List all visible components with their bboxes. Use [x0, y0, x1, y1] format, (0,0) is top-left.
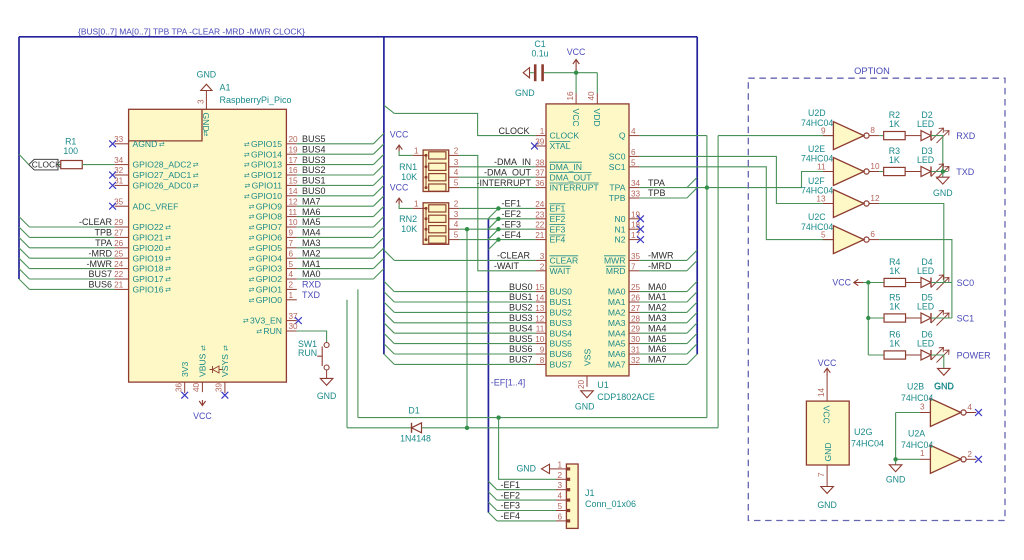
svg-text:29: 29	[631, 325, 641, 334]
bus entry BUS5 U1	[384, 333, 394, 343]
LED D2	[921, 131, 931, 141]
svg-text:⇄: ⇄	[244, 183, 250, 190]
svg-text:30: 30	[289, 322, 299, 331]
U2G pin 7 GND	[826, 465, 828, 487]
svg-text:GND: GND	[933, 188, 953, 198]
wire R3-D3	[905, 171, 921, 173]
bus entry J1 -EF4	[488, 512, 497, 521]
no-connect U1 XTAL	[531, 143, 538, 150]
wire RN2 pin5 -EF4	[459, 239, 535, 241]
wire MA7	[639, 363, 687, 365]
LED D4	[921, 278, 931, 288]
svg-text:MA0: MA0	[608, 287, 626, 297]
bus entry MA6	[373, 206, 384, 216]
svg-text:3: 3	[454, 158, 459, 167]
svg-text:GPIO22: GPIO22	[133, 222, 164, 232]
svg-text:3: 3	[540, 252, 545, 261]
power symbol VCC at U2G	[826, 368, 828, 376]
wire RN2 pin3 -EF2	[459, 218, 535, 220]
wire RN1 pin4 -DMA_OUT	[459, 176, 535, 178]
U1 pin 24 EF1	[536, 207, 546, 209]
svg-text:BUS0: BUS0	[509, 282, 533, 292]
svg-text:4: 4	[454, 220, 459, 229]
bus entry BUS2	[373, 165, 384, 175]
RN2 pin 1	[413, 207, 426, 209]
svg-text:EF2: EF2	[550, 214, 566, 224]
svg-text:39: 39	[215, 382, 224, 392]
svg-text:MA6: MA6	[648, 344, 667, 354]
svg-text:GND: GND	[197, 70, 217, 80]
U1 pin 15 BUS0	[536, 291, 546, 293]
svg-text:1K: 1K	[889, 266, 900, 276]
A1 pin 37 3V3_EN	[286, 320, 296, 322]
wire RN2 pin4 -EF3	[459, 228, 535, 230]
svg-text:-EF4: -EF4	[502, 230, 522, 240]
svg-text:4: 4	[454, 168, 459, 177]
RN2 pin 4	[449, 228, 459, 230]
wire U2E out	[879, 171, 883, 173]
ground flag at J1 pin 1	[549, 468, 556, 470]
U1 pin 39 XTAL	[536, 145, 546, 147]
wire RN2 pin2 -EF1	[459, 207, 535, 209]
wire BUS4 from A1 to bus	[297, 153, 374, 155]
svg-text:32: 32	[631, 356, 641, 365]
svg-text:U2B: U2B	[907, 381, 924, 391]
svg-text:GPIO15: GPIO15	[251, 139, 282, 149]
ground symbol above A1	[201, 84, 212, 90]
svg-text:20: 20	[577, 379, 586, 389]
svg-text:30: 30	[631, 335, 641, 344]
svg-text:GND: GND	[201, 113, 211, 132]
svg-text:9: 9	[540, 346, 545, 355]
wire TPA to A1	[29, 247, 114, 249]
U1 pin 12 BUS3	[536, 322, 546, 324]
wire MA7 from A1 to bus	[297, 205, 374, 207]
wire TXD from A1	[346, 300, 348, 428]
svg-text:29: 29	[114, 218, 124, 227]
svg-text:U1: U1	[597, 380, 609, 390]
svg-text:AGND: AGND	[133, 139, 158, 149]
svg-text:EF4: EF4	[550, 235, 566, 245]
svg-text:-MWR: -MWR	[648, 251, 674, 261]
resistor R6 1K	[884, 351, 906, 359]
ground symbol at D3	[942, 172, 944, 178]
wire J1 -EF2	[497, 499, 556, 501]
A1 pin 34 GPIO28_ADC2	[115, 164, 129, 166]
svg-text:⇄: ⇄	[201, 345, 208, 351]
svg-text:TPB: TPB	[648, 188, 666, 198]
svg-text:8: 8	[870, 126, 875, 135]
wire MA2 from A1 to bus	[297, 257, 374, 259]
LED D6	[921, 350, 931, 360]
ground symbol below U1	[581, 391, 594, 398]
svg-text:CDP1802ACE: CDP1802ACE	[597, 392, 655, 402]
svg-text:⇄: ⇄	[165, 256, 171, 263]
wire Q from U1	[639, 135, 707, 137]
bus entry -MRD	[687, 260, 697, 270]
wire U2B input tie	[896, 412, 920, 414]
svg-text:32: 32	[114, 166, 124, 175]
bus entry TPA	[687, 177, 697, 187]
svg-text:RN2: RN2	[399, 214, 417, 224]
svg-text:GND: GND	[317, 391, 337, 401]
svg-text:33: 33	[631, 190, 641, 199]
svg-text:MA2: MA2	[648, 303, 667, 313]
bus entry J1 -EF3	[488, 502, 497, 511]
svg-text:35: 35	[631, 252, 641, 261]
junction -EF2	[496, 217, 500, 221]
svg-text:11: 11	[817, 162, 826, 171]
svg-text:⇄: ⇄	[249, 235, 255, 242]
bus entry J1 -EF1	[488, 481, 497, 490]
svg-text:20: 20	[289, 135, 299, 144]
svg-text:⇄: ⇄	[165, 266, 171, 273]
svg-text:4: 4	[631, 127, 636, 136]
bus entry TPB	[19, 227, 29, 237]
svg-text:MA5: MA5	[302, 217, 321, 227]
A1 pin 2 GPIO1	[286, 288, 296, 290]
svg-text:BUS4: BUS4	[302, 144, 326, 154]
U2E output pin 10	[869, 171, 879, 173]
bus entry MA2	[373, 248, 384, 258]
resistor R5 1K	[884, 314, 906, 322]
svg-text:BUS1: BUS1	[302, 176, 326, 186]
U1 pin 40 VDD (top)	[596, 94, 598, 104]
svg-text:VBUS: VBUS	[198, 353, 208, 377]
A1 pin 17 GPIO13	[286, 164, 296, 166]
svg-text:GPIO14: GPIO14	[251, 149, 282, 159]
wire MA1	[639, 301, 687, 303]
svg-text:5: 5	[454, 231, 459, 240]
svg-text:11: 11	[289, 208, 298, 217]
wire BUS2 from A1 to bus	[297, 174, 374, 176]
svg-text:24: 24	[114, 260, 124, 269]
wire C1 to VCC and U1 power pins	[544, 72, 597, 74]
svg-text:6: 6	[870, 230, 875, 239]
svg-text:-CLEAR: -CLEAR	[79, 217, 113, 227]
A1 pin 1 GPIO0	[286, 299, 296, 301]
svg-text:BUS6: BUS6	[509, 344, 533, 354]
U1 pin 16 VCC (top)	[575, 94, 577, 104]
svg-text:VCC: VCC	[822, 406, 832, 424]
svg-text:16: 16	[289, 166, 299, 175]
wire BUS7 to U1	[394, 363, 535, 365]
svg-text:7: 7	[817, 472, 826, 477]
svg-text:TPA: TPA	[95, 238, 112, 248]
wire U2D out	[879, 135, 883, 137]
A1 pin 33 AGND	[115, 143, 129, 145]
wire R4-D4	[906, 282, 922, 284]
svg-text:⇄: ⇄	[249, 256, 255, 263]
junction EF3 drop	[465, 227, 469, 231]
U1 pin 28 MA3	[629, 322, 639, 324]
A1 pin 29 GPIO22	[115, 226, 129, 228]
bus entry TPA	[19, 237, 29, 247]
svg-text:MA3: MA3	[302, 238, 321, 248]
power symbol VCC at RN1	[399, 151, 413, 155]
svg-text:38: 38	[535, 158, 545, 167]
bus entry -MWR	[19, 258, 29, 268]
wire MA3	[639, 322, 687, 324]
U1 pin 21 EF4	[536, 239, 546, 241]
svg-text:3V3_EN: 3V3_EN	[250, 316, 282, 326]
wire MA1 from A1 to bus	[297, 268, 374, 270]
U1 pin 8 BUS7	[536, 363, 546, 365]
svg-text:U2C: U2C	[808, 212, 826, 222]
svg-text:Q: Q	[619, 131, 626, 141]
bus: -EF[1..4] vertical at x=488	[487, 219, 489, 513]
U1 pin 7 MRD	[629, 270, 639, 272]
bus entry -EF2	[488, 219, 498, 229]
svg-text:27: 27	[114, 229, 124, 238]
wire -CLEAR to U1	[394, 259, 535, 261]
bus entry BUS0	[373, 185, 384, 195]
U1 pin 5 SC1	[629, 166, 639, 168]
svg-text:⇄: ⇄	[193, 162, 199, 169]
A1 pin 39 VSYS	[224, 382, 226, 393]
bus entry MA4	[373, 227, 384, 237]
wire R1 to A1 pin 34	[82, 164, 114, 166]
bus entry MA3	[373, 237, 384, 247]
wire J1 -EF1	[497, 489, 556, 491]
wire TXD to D1	[347, 427, 411, 429]
svg-text:36: 36	[175, 382, 184, 392]
U1 pin 11 BUS4	[536, 332, 546, 334]
bus: top horizontal	[19, 36, 697, 38]
bus entry -CLEAR	[19, 217, 29, 227]
svg-text:9: 9	[821, 126, 826, 135]
svg-text:⇄: ⇄	[249, 225, 255, 232]
A1 pin 26 GPIO20	[115, 247, 129, 249]
wire RN1 pin2 to -WAIT	[459, 155, 535, 270]
power symbol VCC below A1	[201, 400, 203, 406]
U2B output pin 4	[966, 412, 976, 414]
svg-text:35: 35	[114, 197, 124, 206]
svg-text:26: 26	[631, 294, 641, 303]
U1 pin 26 MA1	[629, 301, 639, 303]
no-connect U2A out	[975, 456, 982, 463]
ground symbol at D6	[938, 368, 951, 375]
svg-text:2: 2	[967, 450, 972, 459]
svg-text:BUS5: BUS5	[509, 334, 533, 344]
RN1 pin 2	[449, 154, 459, 156]
svg-text:7: 7	[289, 239, 294, 248]
svg-text:GND: GND	[823, 442, 833, 461]
svg-text:GPIO26_ADC0: GPIO26_ADC0	[133, 181, 192, 191]
svg-text:10: 10	[535, 335, 545, 344]
connector J1 Conn_01x06 body	[566, 464, 578, 528]
wire SC0 to U2F	[639, 156, 833, 203]
bus entry BUS2 U1	[384, 302, 394, 312]
U1 pin 36 INTERRUPT	[536, 187, 546, 189]
junction -EF3	[496, 227, 500, 231]
switch SW1 RUN	[324, 343, 329, 348]
svg-text:CLEAR: CLEAR	[550, 256, 579, 266]
U1 pin 4 Q	[629, 135, 639, 137]
RN1 pin 4	[449, 176, 459, 178]
svg-text:⇄: ⇄	[244, 173, 250, 180]
svg-text:13: 13	[816, 194, 826, 203]
svg-text:MA4: MA4	[302, 228, 321, 238]
A1 pin 5 GPIO3	[286, 268, 296, 270]
svg-text:BUS1: BUS1	[509, 292, 533, 302]
svg-text:INTERRUPT: INTERRUPT	[550, 183, 600, 193]
A1 pin 40 VBUS	[201, 382, 203, 392]
svg-text:GPIO2: GPIO2	[256, 274, 282, 284]
wire rail to R6	[868, 354, 884, 356]
U1 pin 17 N2	[629, 239, 639, 241]
inverter U2C 74HC04	[833, 226, 864, 254]
inverter U2D 74HC04	[833, 122, 864, 150]
svg-text:MA2: MA2	[608, 308, 626, 318]
svg-text:MA0: MA0	[302, 269, 321, 279]
svg-text:-EF1: -EF1	[501, 480, 521, 490]
svg-text:GPIO9: GPIO9	[256, 201, 282, 211]
svg-text:VCC: VCC	[390, 130, 409, 140]
svg-text:GPIO10: GPIO10	[251, 191, 282, 201]
svg-text:TPA: TPA	[609, 183, 625, 193]
svg-text:0.1u: 0.1u	[531, 49, 548, 59]
RN2 pin 2	[449, 207, 459, 209]
svg-text:GPIO5: GPIO5	[256, 243, 282, 253]
bus entry BUS4 U1	[384, 323, 394, 333]
svg-text:SC1: SC1	[957, 314, 975, 324]
svg-text:VCC: VCC	[832, 278, 851, 288]
svg-text:-MRD: -MRD	[89, 248, 113, 258]
vertical VCC rail	[867, 283, 869, 356]
bus entry MA2	[687, 302, 697, 312]
LED D5	[921, 313, 931, 323]
junction D3 gnd	[941, 169, 945, 173]
svg-text:MA0: MA0	[648, 282, 667, 292]
svg-text:12: 12	[289, 197, 299, 206]
svg-text:5: 5	[557, 502, 562, 511]
svg-text:TXD: TXD	[302, 290, 321, 300]
resistor R2 1K	[884, 132, 906, 140]
wire -MRD to A1	[29, 257, 114, 259]
wire MA6	[639, 353, 687, 355]
svg-text:33: 33	[114, 135, 124, 144]
wire rail to R5	[868, 317, 884, 319]
svg-text:BUS3: BUS3	[550, 318, 573, 328]
svg-text:⇄: ⇄	[249, 204, 255, 211]
A1 pin 4 GPIO2	[286, 278, 296, 280]
svg-text:1K: 1K	[889, 302, 900, 312]
wire TPB	[639, 197, 687, 199]
svg-text:GPIO3: GPIO3	[256, 264, 282, 274]
A1 pin 24 GPIO18	[115, 268, 129, 270]
svg-text:MA1: MA1	[608, 297, 626, 307]
power symbol VCC at C1	[575, 60, 577, 72]
svg-text:22: 22	[535, 221, 545, 230]
svg-text:⇄: ⇄	[249, 214, 255, 221]
svg-text:12: 12	[535, 314, 545, 323]
svg-text:GND: GND	[817, 500, 837, 510]
svg-text:GPIO7: GPIO7	[256, 222, 282, 232]
svg-text:100: 100	[63, 146, 78, 156]
ground symbol at C1	[523, 68, 529, 78]
svg-text:-EF3: -EF3	[502, 219, 522, 229]
svg-text:14: 14	[535, 294, 545, 303]
svg-text:SC0: SC0	[609, 152, 626, 162]
wire -MRD	[639, 270, 687, 272]
bus entry BUS7 U1	[384, 354, 394, 364]
svg-text:4: 4	[557, 492, 562, 501]
A1 pin 7 GPIO5	[286, 247, 296, 249]
U1 pin 27 MA2	[629, 311, 639, 313]
U1 pin 10 BUS5	[536, 343, 546, 345]
junction TPA	[705, 185, 709, 189]
wire CLOCK to U1	[394, 113, 535, 135]
svg-text:1K: 1K	[889, 339, 900, 349]
svg-text:GPIO4: GPIO4	[256, 253, 282, 263]
wire R6-D6	[906, 354, 922, 356]
svg-text:⇄: ⇄	[223, 345, 230, 351]
svg-text:BUS2: BUS2	[550, 308, 573, 318]
svg-text:GPIO13: GPIO13	[251, 160, 282, 170]
svg-text:⇄: ⇄	[256, 329, 262, 336]
wire BUS6 to A1	[29, 288, 114, 290]
svg-text:GPIO11: GPIO11	[252, 181, 283, 191]
bus: right vertical at x=697	[696, 37, 698, 355]
svg-text:-DMA_OUT: -DMA_OUT	[484, 167, 532, 177]
bus entry MA4	[687, 323, 697, 333]
svg-text:VCC: VCC	[571, 109, 581, 127]
svg-text:1: 1	[540, 127, 545, 136]
U1 pin 33 TPB	[629, 197, 639, 199]
bus entry MA0	[687, 281, 697, 291]
svg-text:BUS7: BUS7	[550, 360, 573, 370]
wire R5-D5	[906, 317, 922, 319]
wire C1 to ground	[530, 72, 534, 74]
svg-text:1: 1	[557, 460, 562, 469]
svg-text:SC1: SC1	[609, 162, 626, 172]
svg-text:2: 2	[289, 281, 294, 290]
A1 pin 21 GPIO16	[115, 288, 129, 290]
ground symbol below U2G	[821, 487, 834, 494]
IC U1 CDP1802ACE body	[546, 104, 629, 376]
svg-text:15: 15	[535, 283, 545, 292]
svg-text:BUS5: BUS5	[302, 134, 326, 144]
svg-text:⇄: ⇄	[193, 183, 199, 190]
resistor network RN1 10K body	[423, 150, 449, 192]
wire BUS1 from A1 to bus	[297, 184, 374, 186]
svg-text:17: 17	[289, 156, 299, 165]
bus entry BUS0 U1	[384, 281, 394, 291]
A1 pin 32 GPIO27_ADC1	[115, 174, 129, 176]
diode D1 1N4148	[412, 423, 422, 433]
svg-text:TPA: TPA	[648, 178, 665, 188]
wire BUS4 to U1	[394, 332, 535, 334]
svg-text:U2E: U2E	[808, 144, 825, 154]
svg-text:4: 4	[967, 403, 972, 412]
svg-text:74HC04: 74HC04	[851, 439, 884, 449]
svg-text:GND: GND	[515, 88, 535, 98]
svg-text:A1: A1	[220, 83, 231, 93]
svg-text:GND: GND	[516, 464, 536, 474]
svg-text:ADC_VREF: ADC_VREF	[133, 201, 179, 211]
wire D4 cathode	[931, 282, 952, 284]
bus entry -EF3	[488, 229, 498, 239]
svg-text:34: 34	[631, 179, 641, 188]
bus entry MA0	[373, 269, 384, 279]
svg-text:MA2: MA2	[302, 248, 321, 258]
no-connect U1 N pin	[637, 226, 644, 233]
svg-text:MA4: MA4	[648, 323, 667, 333]
wire BUS3 from A1 to bus	[297, 164, 374, 166]
svg-text:VSYS: VSYS	[220, 354, 230, 377]
svg-text:GPIO27_ADC1: GPIO27_ADC1	[133, 170, 192, 180]
